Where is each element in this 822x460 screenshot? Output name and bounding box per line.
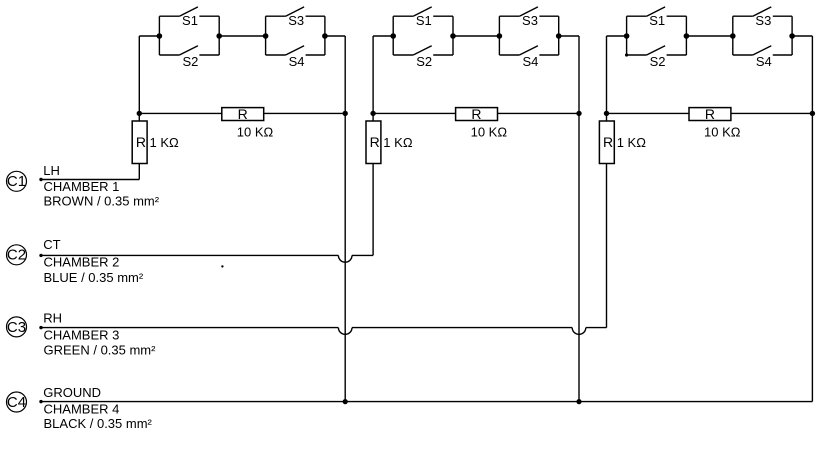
- svg-text:C2: C2: [7, 247, 26, 264]
- svg-text:CHAMBER 1: CHAMBER 1: [44, 179, 120, 194]
- svg-text:RH: RH: [43, 311, 62, 326]
- svg-text:C3: C3: [7, 319, 26, 336]
- svg-text:CT: CT: [43, 237, 60, 252]
- svg-text:CHAMBER 2: CHAMBER 2: [44, 255, 120, 270]
- svg-text:C4: C4: [7, 394, 26, 411]
- svg-text:C1: C1: [7, 173, 26, 190]
- svg-text:GROUND: GROUND: [43, 385, 101, 400]
- svg-text:BLACK / 0.35 mm²: BLACK / 0.35 mm²: [44, 416, 153, 431]
- svg-text:BLUE / 0.35 mm²: BLUE / 0.35 mm²: [44, 270, 144, 285]
- svg-text:GREEN / 0.35 mm²: GREEN / 0.35 mm²: [44, 343, 157, 358]
- svg-text:CHAMBER 4: CHAMBER 4: [44, 401, 120, 416]
- svg-text:LH: LH: [43, 163, 60, 178]
- svg-text:BROWN / 0.35 mm²: BROWN / 0.35 mm²: [44, 194, 160, 209]
- svg-text:CHAMBER 3: CHAMBER 3: [44, 328, 120, 343]
